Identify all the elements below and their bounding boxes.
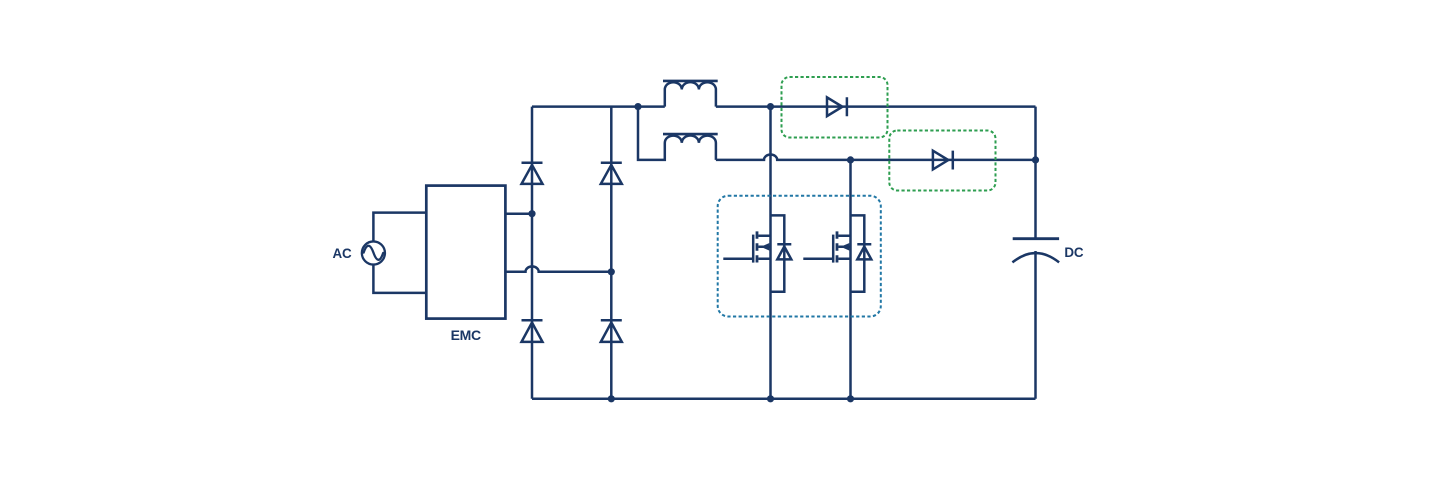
svg-text:EMC: EMC <box>451 327 481 343</box>
svg-text:DC: DC <box>1064 245 1083 260</box>
svg-text:AC: AC <box>333 246 352 261</box>
